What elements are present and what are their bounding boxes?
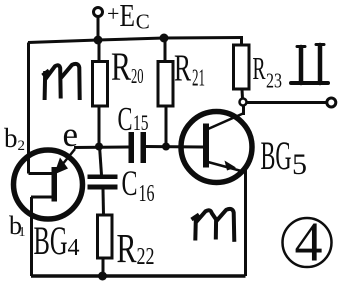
svg-text:R: R — [174, 48, 191, 90]
svg-text:BG: BG — [34, 218, 68, 263]
wire node e line — [74, 146, 129, 150]
svg-text:E: E — [120, 0, 136, 33]
output terminal — [327, 98, 336, 107]
waveform mark m (bottom) — [192, 209, 235, 242]
svg-text:16: 16 — [139, 181, 155, 207]
svg-text:R: R — [117, 225, 137, 271]
svg-text:+: + — [107, 1, 119, 26]
svg-text:R: R — [111, 44, 131, 89]
capacitor C16 — [88, 146, 118, 215]
wire b1 rail to bottom bus — [30, 197, 33, 276]
svg-text:BG: BG — [261, 133, 292, 178]
svg-text:b: b — [4, 123, 18, 153]
svg-text:1: 1 — [19, 225, 26, 240]
node junction at R21 top — [160, 34, 169, 43]
svg-text:C: C — [118, 101, 133, 138]
svg-text:e: e — [63, 115, 79, 154]
node junction bottom — [98, 272, 107, 281]
figure number circle 4 — [283, 212, 332, 274]
resistor R21 — [158, 38, 173, 146]
wire terminal to bus — [97, 17, 100, 41]
emitter line — [57, 149, 75, 171]
wire left rail (b2 to bus) — [27, 43, 30, 174]
wire BG5 emitter to bottom bus — [244, 170, 247, 276]
wire top supply bus — [28, 38, 243, 43]
resistor R22 — [98, 215, 113, 276]
supply terminal +Ec — [94, 8, 103, 17]
svg-text:20: 20 — [131, 64, 144, 88]
b1 stub — [31, 196, 52, 199]
transistor BG5 — [181, 106, 252, 183]
svg-text:R: R — [253, 50, 266, 86]
waveform mark m (top) — [43, 64, 80, 100]
b2 stub — [29, 172, 53, 175]
label BG5 — [261, 133, 308, 181]
node at BG5 base — [162, 143, 170, 151]
capacitor C15 — [129, 132, 204, 163]
label b1 — [9, 211, 26, 240]
label b2 — [4, 123, 25, 154]
label R23 — [253, 50, 283, 93]
label BG4 — [34, 218, 80, 263]
label C15 — [118, 101, 149, 138]
svg-text:23: 23 — [266, 69, 282, 93]
svg-text:15: 15 — [133, 110, 149, 135]
svg-text:C: C — [122, 163, 138, 203]
label R20 — [111, 44, 144, 89]
svg-text:5: 5 — [292, 148, 307, 181]
resistor R23 — [234, 38, 250, 100]
wire bottom bus — [31, 274, 246, 278]
wire output line — [247, 101, 327, 104]
svg-text:4: 4 — [68, 235, 80, 261]
node output junction ring — [240, 99, 247, 106]
resistor R20 — [93, 40, 108, 146]
label +Ec — [107, 0, 150, 34]
node e junction — [95, 143, 103, 151]
svg-text:4: 4 — [295, 212, 323, 274]
node junction at R20 top — [94, 36, 103, 45]
label R21 — [174, 48, 205, 92]
transistor BG4 (UJT) — [14, 149, 83, 219]
label R22 — [117, 225, 155, 271]
svg-text:22: 22 — [137, 244, 155, 270]
svg-text:2: 2 — [18, 138, 26, 154]
svg-text:21: 21 — [192, 66, 205, 92]
svg-text:C: C — [136, 10, 150, 34]
output pulse symbol — [291, 45, 328, 84]
label C16 — [122, 163, 155, 207]
